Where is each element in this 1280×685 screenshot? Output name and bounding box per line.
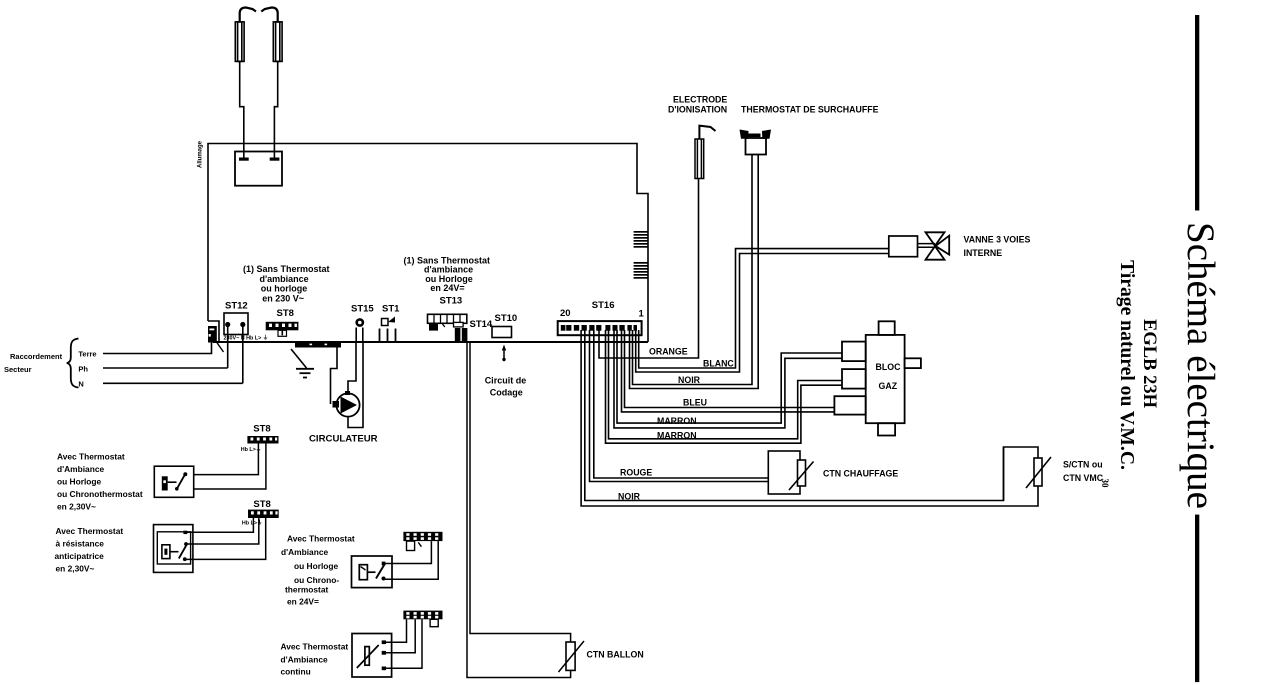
svg-text:S/CTN ou: S/CTN ou <box>1063 460 1103 470</box>
svg-text:Schéma électrique: Schéma électrique <box>1179 222 1222 509</box>
svg-text:Avec Thermostat: Avec Thermostat <box>287 534 355 544</box>
svg-text:ST14: ST14 <box>470 319 493 330</box>
svg-text:en 24V=: en 24V= <box>287 597 319 607</box>
svg-text:continu: continu <box>281 667 311 677</box>
svg-text:ST8: ST8 <box>277 308 294 319</box>
svg-text:NOIR: NOIR <box>618 492 641 502</box>
svg-text:ST12: ST12 <box>225 301 248 312</box>
svg-text:ST16: ST16 <box>592 300 615 311</box>
svg-text:GAZ: GAZ <box>879 381 898 391</box>
svg-text:THERMOSTAT DE SURCHAUFFE: THERMOSTAT DE SURCHAUFFE <box>741 105 879 115</box>
svg-text:ST1: ST1 <box>382 304 400 315</box>
svg-text:anticipatrice: anticipatrice <box>55 551 105 561</box>
svg-text:Avec Thermostat: Avec Thermostat <box>57 452 125 462</box>
svg-text:30: 30 <box>1100 479 1110 489</box>
svg-text:ST13: ST13 <box>440 296 463 307</box>
svg-text:Allumage: Allumage <box>198 140 204 168</box>
svg-text:Codage: Codage <box>490 388 523 398</box>
svg-text:Hb L>⏚: Hb L>⏚ <box>242 519 263 526</box>
svg-text:(1) Sans Thermostat: (1) Sans Thermostat <box>243 264 330 274</box>
svg-text:Avec Thermostat: Avec Thermostat <box>281 642 349 652</box>
svg-text:d'Ambiance: d'Ambiance <box>281 655 328 665</box>
svg-text:BLOC: BLOC <box>876 362 902 372</box>
svg-text:en 2,30V~: en 2,30V~ <box>57 502 96 512</box>
svg-text:ST8: ST8 <box>253 424 270 435</box>
svg-text:BLEU: BLEU <box>683 398 707 408</box>
svg-text:ou Chrono-: ou Chrono- <box>294 575 339 585</box>
svg-text:EGLB 23H: EGLB 23H <box>1139 319 1159 409</box>
svg-text:BLANC: BLANC <box>703 359 734 369</box>
svg-text:CTN VMC: CTN VMC <box>1063 473 1104 483</box>
svg-text:MARRON: MARRON <box>657 416 697 426</box>
svg-text:d'Ambiance: d'Ambiance <box>57 464 104 474</box>
svg-text:ELECTRODE: ELECTRODE <box>673 95 727 105</box>
svg-text:en 230 V~: en 230 V~ <box>262 293 304 303</box>
svg-text:ORANGE: ORANGE <box>649 347 688 357</box>
svg-text:ou Horloge: ou Horloge <box>294 561 339 571</box>
svg-text:ou Horloge: ou Horloge <box>57 477 102 487</box>
svg-text:20: 20 <box>560 308 571 319</box>
svg-text:ROUGE: ROUGE <box>620 468 652 478</box>
svg-text:Hb L>⏚: Hb L>⏚ <box>241 446 262 453</box>
svg-text:ST10: ST10 <box>495 313 518 324</box>
svg-text:MARRON: MARRON <box>657 431 697 441</box>
svg-text:NOIR: NOIR <box>678 375 701 385</box>
svg-text:en 2,30V~: en 2,30V~ <box>56 564 95 574</box>
svg-text:d'Ambiance: d'Ambiance <box>281 547 328 557</box>
svg-text:CTN BALLON: CTN BALLON <box>587 650 644 660</box>
svg-text:ou horloge: ou horloge <box>261 284 308 294</box>
svg-text:Raccordement: Raccordement <box>10 352 63 361</box>
svg-text:CIRCULATEUR: CIRCULATEUR <box>309 434 378 445</box>
svg-text:Terre: Terre <box>78 350 96 359</box>
svg-text:ou Chronothermostat: ou Chronothermostat <box>57 489 143 499</box>
svg-text:thermostat: thermostat <box>285 585 328 595</box>
svg-text:Secteur: Secteur <box>4 365 32 374</box>
svg-text:Ph: Ph <box>78 365 88 374</box>
svg-text:N: N <box>78 380 83 389</box>
svg-text:D'IONISATION: D'IONISATION <box>668 105 727 115</box>
svg-text:1: 1 <box>639 309 645 320</box>
svg-text:Circuit de: Circuit de <box>485 376 527 386</box>
svg-text:INTERNE: INTERNE <box>964 248 1003 258</box>
svg-text:en 24V=: en 24V= <box>430 283 464 293</box>
svg-text:Avec Thermostat: Avec Thermostat <box>56 526 124 536</box>
svg-text:VANNE 3 VOIES: VANNE 3 VOIES <box>964 235 1031 245</box>
svg-text:230V~ N Hb L> ⏚: 230V~ N Hb L> ⏚ <box>224 335 269 342</box>
svg-text:d'ambiance: d'ambiance <box>260 274 309 284</box>
svg-text:Tirage naturel ou V.M.C.: Tirage naturel ou V.M.C. <box>1116 260 1137 470</box>
svg-text:ST8: ST8 <box>253 499 270 510</box>
svg-text:CTN CHAUFFAGE: CTN CHAUFFAGE <box>823 469 898 479</box>
svg-text:ST15: ST15 <box>351 304 374 315</box>
svg-text:à résistance: à résistance <box>56 539 105 549</box>
